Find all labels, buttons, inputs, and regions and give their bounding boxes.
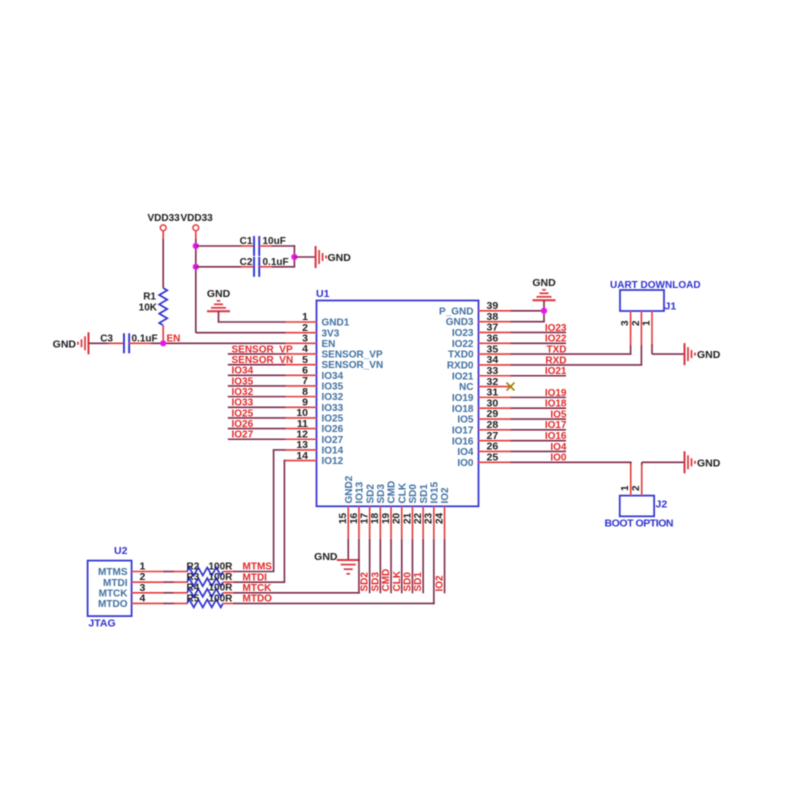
net label wire IO26 (pin 11) [228,419,285,430]
svg-text:IO32: IO32 [232,387,254,398]
power flag VDD33 (right, feeds 3V3/C1/C2) [181,213,214,231]
ground (above pin 39) [532,277,556,300]
net label wire SD2 (pin 17) [360,539,371,594]
svg-text:IO34: IO34 [232,366,254,377]
svg-text:IO33: IO33 [232,398,254,409]
wire MTDI vertical to pin 14 [284,460,286,462]
svg-text:1: 1 [641,320,652,326]
J1 pin 2 [631,311,642,346]
connector J1 UART DOWNLOAD [610,280,701,313]
wire IO15 (pin 23) down to MTDO row [433,539,435,605]
connector U2 JTAG body [88,545,132,630]
svg-text:IO23: IO23 [452,328,474,339]
U1 pin 14 (IO12) stub [285,450,344,467]
connector J2 BOOT OPTION [605,496,674,530]
svg-text:R4: R4 [187,583,200,594]
svg-text:IO4: IO4 [550,442,567,453]
svg-text:CMD: CMD [381,569,392,592]
svg-text:32: 32 [487,376,499,388]
U1 pin 24 (IO2) stub [434,487,451,539]
net label wire IO4 (pin 26) [511,442,567,453]
net label wire IO27 (pin 12) [228,430,285,441]
svg-text:20: 20 [392,512,403,524]
svg-text:GND1: GND1 [322,318,350,329]
svg-text:IO19: IO19 [545,388,567,399]
net label EN [167,333,181,344]
svg-text:SENSOR_VN: SENSOR_VN [232,355,294,366]
U1 pin 17 (SD2) stub [359,484,376,539]
wire ground to GND1 pin [218,311,286,322]
U1 pin 39 (P_GND) stub [439,300,510,317]
svg-text:IO12: IO12 [322,456,344,467]
svg-text:2: 2 [631,485,642,491]
U2 pin 3 (MTCK) [99,582,165,600]
ground (right of C1/C2) [316,246,352,268]
net label wire CMD (pin 19) [381,539,392,594]
svg-text:IO15: IO15 [429,481,440,503]
J2 pin 2 [631,464,642,496]
svg-text:MTMS: MTMS [243,562,273,573]
net label wire CLK (pin 20) [392,539,403,594]
svg-text:JTAG: JTAG [88,618,115,630]
svg-text:24: 24 [434,512,445,524]
svg-text:MTCK: MTCK [243,583,273,594]
wire J2 pin 2 to ground [642,462,685,465]
svg-text:SD0: SD0 [408,484,419,504]
svg-text:GND: GND [314,551,338,563]
svg-text:GND: GND [697,349,721,361]
svg-text:15: 15 [338,512,349,524]
svg-text:CLK: CLK [397,482,408,503]
svg-text:U2: U2 [114,545,128,557]
svg-text:SENSOR_VN: SENSOR_VN [322,360,384,371]
svg-text:30: 30 [487,397,499,409]
svg-text:IO19: IO19 [452,393,474,404]
net label wire IO18 (pin 30) [511,399,567,410]
wire MTMS vertical to pin 13 [273,449,286,451]
svg-text:39: 39 [487,300,499,312]
svg-text:21: 21 [402,512,413,524]
U1 pin 21 (SD0) stub [402,484,419,539]
svg-text:34: 34 [487,354,499,366]
svg-text:IO35: IO35 [322,382,344,393]
svg-text:23: 23 [424,512,435,524]
svg-text:MTCK: MTCK [99,588,129,599]
net label wire SENSOR_VP (pin 4) [228,344,293,355]
U1 pin 35 (TXD0) stub [448,343,511,360]
net label wire IO25 (pin 10) [228,408,285,419]
U1 pin 29 (IO5) stub [457,408,510,425]
svg-text:SD0: SD0 [402,572,413,592]
svg-text:EN: EN [167,333,181,344]
svg-text:TXD: TXD [547,345,567,356]
wire C1 to GND corner [259,245,295,267]
svg-text:GND: GND [697,457,721,469]
svg-text:MTDI: MTDI [243,572,268,583]
svg-text:33: 33 [487,365,499,377]
U1 pin 27 (IO16) stub [452,430,511,447]
wire R4 to MTCK net [223,583,360,594]
svg-text:IO27: IO27 [322,435,344,446]
capacitor C3 0.1uF [100,333,157,353]
U1 pin 10 (IO25) stub [285,407,344,424]
svg-text:R3: R3 [187,572,200,583]
wire U2 pin 1 to R2 [164,571,188,573]
wire J1 pin 1 to ground [652,345,685,355]
U1 pin 37 (IO23) stub [452,322,511,339]
svg-text:IO0: IO0 [457,458,474,469]
net label wire SD0 (pin 21) [402,539,413,594]
U1 pin 16 (IO13) stub [349,481,366,538]
svg-text:IO0: IO0 [550,453,567,464]
U1 pin 11 (IO26) stub [285,418,344,435]
net label wire IO16 (pin 27) [511,431,567,442]
U1 pin 7 (IO35) stub [285,375,344,392]
svg-text:2: 2 [631,320,642,326]
svg-text:4: 4 [140,592,146,604]
svg-text:IO18: IO18 [545,399,567,410]
U1 pin 30 (IO18) stub [452,397,511,414]
net label wire SD1 (pin 22) [413,539,424,594]
svg-text:VDD33: VDD33 [181,213,214,224]
svg-text:SENSOR_VP: SENSOR_VP [322,350,383,361]
svg-text:IO21: IO21 [545,366,567,377]
net label wire IO35 (pin 7) [228,376,285,387]
svg-text:IO14: IO14 [322,446,344,457]
U1 pin 13 (IO14) stub [285,439,344,456]
svg-text:100R: 100R [209,583,234,594]
net label wire IO2 (pin 24) [435,539,446,594]
wire RXD (pin 34) to J1 pin 2 [511,345,643,367]
svg-text:BOOT OPTION: BOOT OPTION [605,518,674,530]
svg-text:GND: GND [532,277,556,289]
junction P_GND/ground [541,308,547,314]
svg-text:C1: C1 [240,236,253,247]
resistor R1 10K [139,288,168,325]
U1 pin 34 (RXD0) stub [447,354,511,371]
U1 pin 1 (GND1) stub [285,311,350,328]
svg-text:IO22: IO22 [545,334,567,345]
ground (below pin 15) [314,539,360,574]
wire R1 to EN node [162,325,164,343]
wire IO0 (pin 25) to J2 pin 1 [511,453,632,465]
svg-text:RXD: RXD [545,355,566,366]
svg-text:RXD0: RXD0 [447,361,474,372]
U1 pin 36 (IO22) stub [452,332,511,349]
svg-text:36: 36 [487,332,499,344]
svg-text:IO5: IO5 [550,409,567,420]
svg-text:27: 27 [487,430,499,442]
U1 pin 22 (SD1) stub [413,484,430,539]
svg-text:IO34: IO34 [322,371,344,382]
U2 pin 2 (MTDI) [103,571,164,589]
U1 pin 18 (SD3) stub [370,484,387,539]
U1 pin 25 (IO0) stub [457,452,510,469]
wire U2 pin 3 to R4 [164,592,188,594]
svg-text:IO16: IO16 [545,431,567,442]
wire VDD33 to R1 [162,231,164,288]
svg-text:SD3: SD3 [376,484,387,504]
junction VDD33/C1 [193,243,199,249]
svg-text:17: 17 [359,512,370,524]
svg-text:19: 19 [381,512,392,524]
svg-text:C3: C3 [100,333,113,344]
wire U2 pin 4 to R5 [164,602,188,604]
svg-text:SD1: SD1 [419,484,430,504]
U1 pin 20 (CLK) stub [392,482,409,539]
svg-text:100R: 100R [209,593,234,604]
wire P_GND/GND3 to ground [511,300,545,321]
svg-text:25: 25 [487,452,499,464]
net label wire SD3 (pin 18) [370,539,381,594]
net label wire IO19 (pin 31) [511,388,567,399]
wire IO13 (pin 16) down to MTCK row [358,539,360,594]
J1 pin 3 [620,311,631,346]
U1 pin 3 (EN) stub [285,333,336,350]
svg-text:16: 16 [349,512,360,524]
svg-text:IO25: IO25 [232,408,254,419]
svg-text:IO32: IO32 [322,392,344,403]
svg-text:3V3: 3V3 [322,328,340,339]
U1 pin 32 (NC) stub [459,376,510,393]
wire R2 to MTMS net [223,450,274,573]
U1 pin 4 (SENSOR_VP) stub [285,343,383,360]
wire U2 pin 2 to R3 [164,581,188,583]
svg-text:MTDO: MTDO [243,594,273,605]
capacitor C1 10uF [240,236,286,256]
U1 pin 31 (IO19) stub [452,387,511,404]
ground (right of J1) [685,343,721,365]
svg-text:EN: EN [322,339,336,350]
svg-text:IO18: IO18 [452,404,474,415]
svg-text:IO5: IO5 [457,415,474,426]
svg-text:31: 31 [487,387,499,399]
svg-text:MTDO: MTDO [98,599,128,610]
svg-text:IO2: IO2 [435,575,446,592]
resistor R4 100R [187,583,234,597]
svg-text:IO21: IO21 [452,371,474,382]
svg-text:IO13: IO13 [355,481,366,503]
junction EN/R1 [160,340,166,346]
svg-text:IO23: IO23 [545,323,567,334]
svg-text:SENSOR_VP: SENSOR_VP [232,344,293,355]
resistor R2 100R [187,561,234,575]
U1 pin 26 (IO4) stub [457,441,510,458]
svg-text:GND2: GND2 [344,475,355,503]
no-connect X on pin 32 [507,383,515,391]
svg-text:IO17: IO17 [452,425,474,436]
U1 pin 15 (GND2) stub [338,475,355,538]
svg-text:IO16: IO16 [452,436,474,447]
svg-text:22: 22 [413,512,424,524]
svg-text:R5: R5 [187,593,200,604]
svg-text:SD3: SD3 [370,572,381,592]
svg-text:IO25: IO25 [322,414,344,425]
svg-text:GND: GND [328,252,352,264]
junction C1/C2/GND [291,254,297,260]
svg-text:3: 3 [620,320,631,326]
svg-text:R1: R1 [143,292,156,303]
svg-text:IO26: IO26 [322,424,344,435]
U1 pin 8 (IO32) stub [285,386,344,403]
ground (right of J2) [685,451,721,473]
net label wire IO34 (pin 6) [228,366,285,377]
svg-text:IO26: IO26 [232,419,254,430]
svg-text:NC: NC [459,382,473,393]
svg-text:100R: 100R [209,561,234,572]
wire R5 to MTDO net [223,594,435,605]
svg-text:35: 35 [487,343,499,355]
svg-text:J2: J2 [656,499,668,511]
svg-text:SD2: SD2 [365,484,376,504]
svg-text:GND: GND [207,288,231,300]
svg-text:18: 18 [370,512,381,524]
net label wire IO17 (pin 28) [511,420,567,431]
svg-text:IO22: IO22 [452,339,474,350]
svg-text:J1: J1 [665,301,677,313]
wire junction to GND symbol [294,256,315,258]
svg-text:29: 29 [487,408,499,420]
wire C2 to GND corner [259,266,295,268]
svg-text:IO35: IO35 [232,376,254,387]
wire VDD33 to C2 [196,266,255,268]
svg-text:37: 37 [487,322,499,334]
J2 pin 1 [620,464,631,496]
svg-text:CLK: CLK [392,570,403,591]
svg-text:IO27: IO27 [232,430,254,441]
svg-text:UART DOWNLOAD: UART DOWNLOAD [610,280,701,291]
svg-text:R2: R2 [187,561,200,572]
svg-text:38: 38 [487,311,499,323]
ground (above pin 1) [207,288,231,311]
U1 pin 5 (SENSOR_VN) stub [285,354,384,371]
svg-text:28: 28 [487,419,499,431]
ground (left of C3) [53,332,89,354]
resistor R5 100R [187,593,234,607]
net label wire IO32 (pin 8) [228,387,285,398]
svg-text:IO17: IO17 [545,420,567,431]
junction VDD33/C2 [193,264,199,270]
svg-text:VDD33: VDD33 [148,213,181,224]
svg-text:U1: U1 [316,288,330,300]
svg-text:100R: 100R [209,572,234,583]
svg-text:MTDI: MTDI [103,578,128,589]
net label wire IO21 (pin 33) [511,366,567,377]
U1 pin 12 (IO27) stub [285,428,344,445]
svg-text:C2: C2 [240,257,253,268]
J1 pin 1 [641,311,652,346]
wire C3 to EN pin [129,342,285,344]
svg-text:GND3: GND3 [446,317,474,328]
svg-text:MTMS: MTMS [98,567,128,578]
U1 pin 9 (IO33) stub [285,396,344,413]
svg-text:IO33: IO33 [322,403,344,414]
svg-text:TXD0: TXD0 [448,350,474,361]
resistor R3 100R [187,572,234,586]
svg-text:GND: GND [53,338,77,350]
wire TXD (pin 35) to J1 pin 3 [511,345,632,356]
U1 pin 33 (IO21) stub [452,365,511,382]
wire ground to C3 [89,342,125,344]
svg-text:IO4: IO4 [457,447,474,458]
svg-text:CMD: CMD [387,481,398,504]
svg-text:SD2: SD2 [360,572,371,592]
svg-text:10K: 10K [139,303,158,314]
net label wire IO22 (pin 36) [511,334,567,345]
U1 pin 19 (CMD) stub [381,481,398,539]
power flag VDD33 (left, feeds R1) [148,213,181,231]
svg-text:26: 26 [487,441,499,453]
U2 pin 4 (MTDO) [98,592,164,610]
net label wire IO23 (pin 37) [511,323,567,334]
U1 pin 23 (IO15) stub [424,481,441,538]
svg-text:P_GND: P_GND [439,306,473,317]
IC U1 ESP32 module body [316,288,479,506]
net label wire IO33 (pin 9) [228,398,285,409]
net label wire IO5 (pin 29) [511,409,567,420]
U2 pin 1 (MTMS) [98,561,164,579]
svg-text:SD1: SD1 [413,572,424,592]
wire R3 to MTDI net [223,461,285,584]
U1 pin 6 (IO34) stub [285,365,344,382]
net label wire SENSOR_VN (pin 5) [228,355,293,366]
U1 pin 38 (GND3) stub [446,311,511,328]
wire VDD33 down to 3V3 pin [196,231,285,333]
wire VDD33 to C1 [196,245,255,247]
svg-text:1: 1 [620,485,631,491]
svg-text:14: 14 [296,450,308,462]
svg-text:IO2: IO2 [440,487,451,504]
U1 pin 2 (3V3) stub [285,322,340,339]
U1 pin 28 (IO17) stub [452,419,511,436]
capacitor C2 0.1uF [240,257,289,277]
